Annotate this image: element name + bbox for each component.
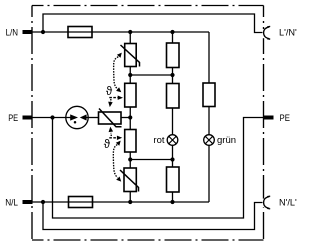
dashed arc theta1 MOV1-D1 <box>114 57 119 90</box>
arrowhead theta2 up at MOV-PE <box>109 127 114 133</box>
disconnector box D2 <box>125 130 136 153</box>
fuse F1 (L/N series impedance) <box>68 27 92 38</box>
wire: column3 vertical <box>208 107 210 135</box>
dashed arc theta2 D2-MOV2 <box>113 145 117 178</box>
resistor R2 <box>167 84 180 109</box>
terminal N/L mark <box>23 200 33 204</box>
node R3 bottom <box>170 200 174 204</box>
arrowhead at MOV1 <box>117 53 122 58</box>
terminal L/N mark <box>23 30 33 34</box>
svg-text:ϑ: ϑ <box>106 86 113 98</box>
svg-text:L'/N': L'/N' <box>279 28 297 39</box>
svg-text:N'/L': N'/L' <box>279 197 297 208</box>
spark gap SG (PE path) <box>66 106 88 128</box>
fuse F2 (N/L series impedance) <box>69 197 93 208</box>
resistor R4 <box>203 83 215 107</box>
svg-text:N/L: N/L <box>5 197 18 208</box>
lamp LED rot <box>167 135 178 146</box>
wire: bottom N/L horizontal <box>33 201 210 203</box>
node R1 top <box>170 30 174 34</box>
varistor MOV1 (L-PE path top) <box>121 44 140 67</box>
svg-text:rot: rot <box>153 135 164 146</box>
terminal L'/N' chevron <box>264 26 271 39</box>
svg-text:PE: PE <box>280 113 290 124</box>
lamp LED gruen <box>204 135 215 146</box>
disconnector box D1 <box>125 83 136 107</box>
dashed arrow theta2 to D2 <box>109 137 117 139</box>
node y75 left <box>128 73 132 77</box>
dashed arrow theta2 to MOV-PE <box>110 133 112 136</box>
arrowhead arc2 lower at MOV2 <box>116 177 121 182</box>
resistor R1 <box>167 43 180 68</box>
enclosure dash-dot border <box>32 6 264 241</box>
svg-text:grün: grün <box>217 135 236 146</box>
arrowhead theta1 down at MOV-PE <box>108 102 113 108</box>
node L/N split <box>41 30 45 34</box>
svg-text:L/N: L/N <box>6 27 19 38</box>
wire: N loop to N'/L' terminal <box>43 202 263 230</box>
mask under N'/L' chevron <box>263 199 265 208</box>
node MOV1 top <box>128 30 132 34</box>
terminal PE left mark <box>23 116 33 120</box>
resistor R3 <box>167 167 180 192</box>
arrowhead arc2 upper at D2 <box>116 141 121 146</box>
wire: green LED branch down to bottom wire <box>208 145 210 202</box>
node PE split <box>50 115 54 119</box>
wire: PE loop to right PE terminal <box>53 118 264 219</box>
varistor MOV-PE (horizontal) <box>99 109 122 127</box>
terminal PE right mark <box>264 116 274 120</box>
svg-text:ϑ: ϑ <box>104 139 111 151</box>
wire: PE left horizontal <box>33 117 72 119</box>
dashed arrow theta1 to D1 <box>109 97 118 99</box>
varistor MOV2 (N-PE path bottom) <box>120 168 139 192</box>
dashed arrow theta1 to MOV-PE <box>110 99 112 102</box>
arrowheads <box>108 53 123 182</box>
wire: top inner rail L/N to L'/N' <box>43 14 263 33</box>
svg-text:PE: PE <box>8 113 18 124</box>
node y159 left <box>128 157 132 161</box>
wire: cross wire y159.5 column1-column2 <box>130 159 172 161</box>
wire: column1 vertical <box>129 32 131 202</box>
node PE-MOV <box>128 115 132 119</box>
wire: cross wire y75 column1-column2 <box>130 74 172 76</box>
terminal N'/L' chevron <box>264 196 271 209</box>
mask under L'/N' chevron <box>263 29 265 38</box>
node y159 right <box>170 157 174 161</box>
thermal coupling dashed arrows theta1 <box>109 57 118 178</box>
node MOV2 bottom <box>128 200 132 204</box>
node y75 right <box>170 73 174 77</box>
wire: varistor MOV-PE to node <box>121 117 130 119</box>
wire: spark gap to varistor MOV-PE <box>86 117 99 119</box>
node N/L split <box>41 200 45 204</box>
wire: column3 feed down from top wire <box>208 32 210 83</box>
wire: column2 vertical <box>172 32 174 202</box>
arrowhead arc1 lower at D1 <box>116 87 121 92</box>
arrowhead theta2 horiz at D2 <box>117 136 122 140</box>
wire: main top L/N horizontal <box>33 31 210 33</box>
arrowhead theta1 horiz at D1 <box>118 96 123 100</box>
